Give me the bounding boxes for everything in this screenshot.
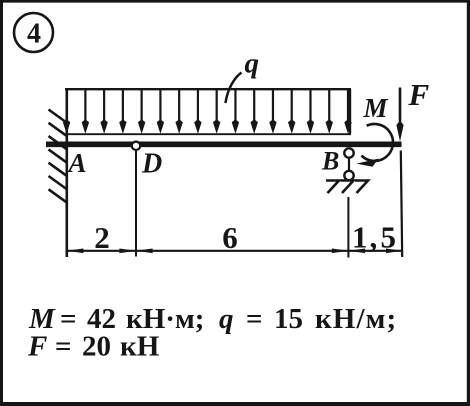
- problem number badge 4: [14, 13, 53, 52]
- dimension extension line at B: [347, 197, 349, 258]
- svg-text:F: F: [408, 77, 430, 112]
- dim arrows at D: [119, 249, 136, 254]
- wall support at A (fixed wall with hatching): [49, 88, 67, 257]
- dimension extension line at D: [135, 151, 137, 257]
- roller support at B: [326, 148, 368, 193]
- hinge D: [132, 142, 140, 150]
- distributed load q (top line, baseline, 16 arrows): [65, 89, 351, 134]
- svg-text:A: A: [67, 148, 87, 178]
- svg-text:D: D: [141, 148, 162, 179]
- beam AB: [46, 141, 402, 147]
- label q with leader: [226, 48, 260, 104]
- moment M arc with arrowhead: [357, 124, 393, 167]
- svg-text:F = 20 кН: F = 20 кН: [27, 331, 160, 363]
- dim arrows at A: [67, 249, 84, 254]
- svg-text:M: M: [363, 93, 389, 123]
- dim arrow at right end: [386, 249, 402, 254]
- svg-text:q: q: [245, 48, 260, 80]
- svg-text:2: 2: [94, 220, 110, 255]
- svg-text:4: 4: [27, 19, 41, 50]
- dim arrows at B: [332, 249, 349, 254]
- force F arrow: [396, 88, 403, 142]
- dimension extension line at right end: [401, 151, 402, 258]
- svg-text:1,5: 1,5: [352, 220, 396, 255]
- dimension line: [67, 250, 403, 252]
- svg-text:6: 6: [222, 220, 238, 255]
- svg-text:B: B: [321, 147, 339, 176]
